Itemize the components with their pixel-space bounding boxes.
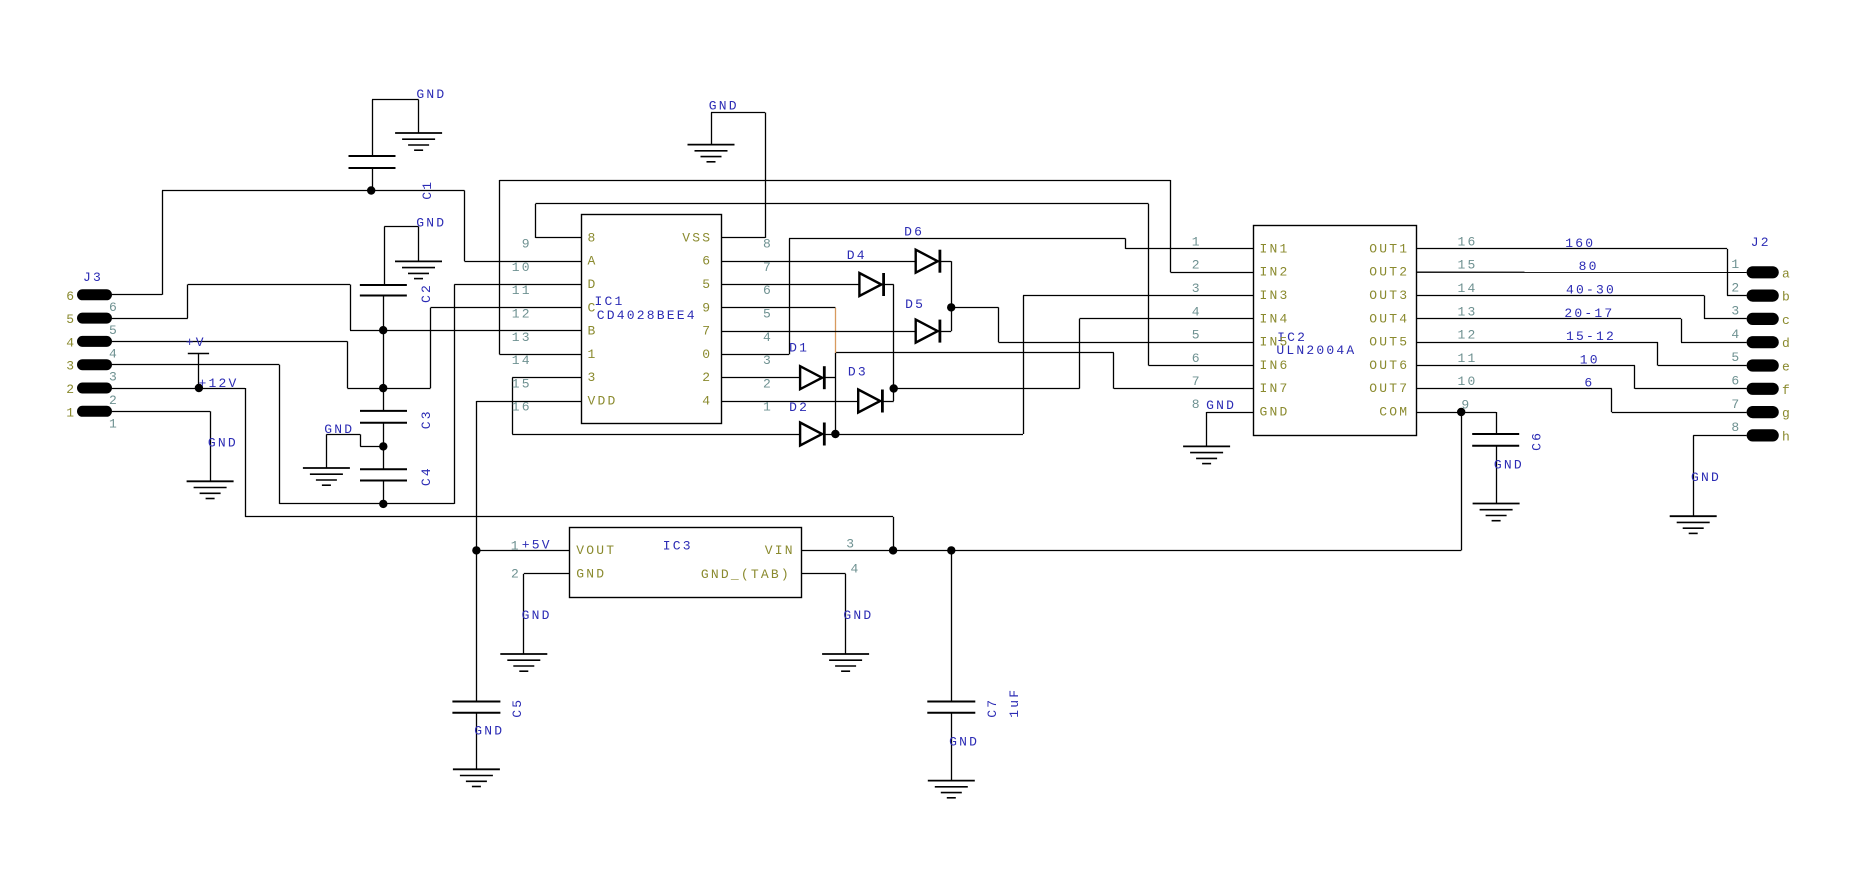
svg-text:4: 4 bbox=[109, 346, 119, 361]
svg-text:GND_(TAB): GND_(TAB) bbox=[701, 567, 791, 582]
svg-text:6: 6 bbox=[1192, 351, 1202, 366]
svg-text:VIN: VIN bbox=[765, 543, 795, 558]
svg-text:1: 1 bbox=[588, 347, 598, 362]
svg-text:16: 16 bbox=[512, 400, 532, 415]
svg-text:e: e bbox=[1782, 360, 1792, 375]
svg-text:OUT6: OUT6 bbox=[1369, 358, 1409, 373]
svg-text:2: 2 bbox=[702, 370, 712, 385]
svg-text:6: 6 bbox=[1731, 374, 1741, 389]
svg-text:1: 1 bbox=[1192, 234, 1202, 249]
svg-text:IN3: IN3 bbox=[1260, 288, 1290, 303]
svg-text:OUT7: OUT7 bbox=[1369, 381, 1409, 396]
svg-text:+V: +V bbox=[186, 335, 206, 350]
svg-text:4: 4 bbox=[851, 562, 861, 577]
svg-text:14: 14 bbox=[512, 353, 532, 368]
svg-text:12: 12 bbox=[512, 307, 532, 322]
svg-text:GND: GND bbox=[843, 608, 873, 623]
svg-text:D2: D2 bbox=[789, 400, 809, 415]
svg-text:C1: C1 bbox=[420, 180, 435, 200]
svg-text:2: 2 bbox=[66, 382, 76, 397]
svg-text:14: 14 bbox=[1458, 281, 1478, 296]
svg-text:COM: COM bbox=[1379, 405, 1409, 420]
svg-text:GND: GND bbox=[949, 735, 979, 750]
svg-text:GND: GND bbox=[709, 99, 739, 114]
svg-text:h: h bbox=[1782, 429, 1792, 444]
svg-text:8: 8 bbox=[1192, 397, 1202, 412]
svg-text:C2: C2 bbox=[419, 283, 434, 303]
svg-text:4: 4 bbox=[66, 335, 76, 350]
svg-text:6: 6 bbox=[702, 254, 712, 269]
svg-text:+12V: +12V bbox=[199, 376, 239, 391]
svg-text:12: 12 bbox=[1458, 328, 1478, 343]
svg-text:D: D bbox=[588, 277, 598, 292]
svg-text:VDD: VDD bbox=[588, 394, 618, 409]
svg-text:OUT1: OUT1 bbox=[1369, 241, 1409, 256]
svg-text:D5: D5 bbox=[905, 297, 925, 312]
svg-text:4: 4 bbox=[1192, 304, 1202, 319]
svg-text:5: 5 bbox=[702, 277, 712, 292]
svg-text:1: 1 bbox=[511, 538, 521, 553]
svg-text:f: f bbox=[1782, 383, 1792, 398]
svg-text:6: 6 bbox=[1584, 376, 1594, 391]
svg-text:D1: D1 bbox=[789, 341, 809, 356]
svg-text:4: 4 bbox=[763, 330, 773, 345]
svg-text:5: 5 bbox=[66, 312, 76, 327]
svg-text:9: 9 bbox=[702, 300, 712, 315]
svg-text:D4: D4 bbox=[847, 248, 867, 263]
svg-text:GND: GND bbox=[324, 422, 354, 437]
svg-text:5: 5 bbox=[763, 307, 773, 322]
svg-text:C: C bbox=[588, 300, 598, 315]
svg-text:10: 10 bbox=[1580, 352, 1600, 367]
svg-text:3: 3 bbox=[66, 359, 76, 374]
svg-text:GND: GND bbox=[522, 608, 552, 623]
svg-text:80: 80 bbox=[1579, 259, 1599, 274]
svg-text:GND: GND bbox=[576, 567, 606, 582]
svg-text:J2: J2 bbox=[1751, 235, 1771, 250]
svg-text:+5V: +5V bbox=[522, 538, 552, 553]
svg-text:16: 16 bbox=[1458, 234, 1478, 249]
svg-text:IN7: IN7 bbox=[1260, 381, 1290, 396]
svg-text:7: 7 bbox=[1192, 374, 1202, 389]
svg-text:3: 3 bbox=[1192, 281, 1202, 296]
svg-text:GND: GND bbox=[1494, 458, 1524, 473]
svg-text:2: 2 bbox=[1192, 258, 1202, 273]
svg-text:2: 2 bbox=[1731, 280, 1741, 295]
svg-text:VSS: VSS bbox=[682, 230, 712, 245]
svg-text:3: 3 bbox=[588, 370, 598, 385]
svg-text:GND: GND bbox=[416, 215, 446, 230]
svg-text:2: 2 bbox=[511, 567, 521, 582]
svg-text:OUT3: OUT3 bbox=[1369, 288, 1409, 303]
svg-text:CD4028BEE4: CD4028BEE4 bbox=[597, 308, 697, 323]
svg-text:160: 160 bbox=[1565, 236, 1595, 251]
svg-text:J3: J3 bbox=[83, 270, 103, 285]
svg-text:5: 5 bbox=[109, 323, 119, 338]
svg-text:IN6: IN6 bbox=[1260, 358, 1290, 373]
svg-text:C5: C5 bbox=[510, 698, 525, 718]
svg-text:2: 2 bbox=[763, 376, 773, 391]
svg-text:a: a bbox=[1782, 266, 1792, 281]
svg-text:13: 13 bbox=[1458, 304, 1478, 319]
svg-text:2: 2 bbox=[109, 393, 119, 408]
svg-text:8: 8 bbox=[1731, 420, 1741, 435]
svg-text:GND: GND bbox=[1206, 398, 1236, 413]
svg-text:7: 7 bbox=[702, 324, 712, 339]
svg-text:GND: GND bbox=[474, 723, 504, 738]
svg-text:3: 3 bbox=[109, 370, 119, 385]
svg-text:15: 15 bbox=[512, 376, 532, 391]
svg-text:B: B bbox=[588, 324, 598, 339]
svg-text:OUT5: OUT5 bbox=[1369, 335, 1409, 350]
svg-text:10: 10 bbox=[1458, 374, 1478, 389]
svg-text:6: 6 bbox=[109, 300, 119, 315]
svg-text:c: c bbox=[1782, 313, 1792, 328]
svg-text:g: g bbox=[1782, 406, 1792, 421]
svg-text:15: 15 bbox=[1458, 258, 1478, 273]
svg-text:OUT4: OUT4 bbox=[1369, 311, 1409, 326]
svg-text:3: 3 bbox=[763, 353, 773, 368]
svg-text:GND: GND bbox=[416, 87, 446, 102]
svg-text:11: 11 bbox=[1458, 351, 1478, 366]
svg-text:VOUT: VOUT bbox=[576, 543, 616, 558]
svg-text:b: b bbox=[1782, 290, 1792, 305]
svg-text:5: 5 bbox=[1192, 328, 1202, 343]
svg-text:4: 4 bbox=[1731, 327, 1741, 342]
svg-text:1: 1 bbox=[66, 405, 76, 420]
svg-text:IN2: IN2 bbox=[1260, 265, 1290, 280]
svg-text:1: 1 bbox=[1731, 257, 1741, 272]
svg-text:3: 3 bbox=[846, 537, 856, 552]
svg-text:1uF: 1uF bbox=[1007, 688, 1022, 718]
svg-text:5: 5 bbox=[1731, 350, 1741, 365]
svg-text:IN1: IN1 bbox=[1260, 241, 1290, 256]
svg-text:10: 10 bbox=[512, 260, 532, 275]
svg-text:D6: D6 bbox=[904, 225, 924, 240]
svg-text:GND: GND bbox=[208, 435, 238, 450]
svg-text:9: 9 bbox=[522, 237, 532, 252]
svg-text:9: 9 bbox=[1461, 398, 1471, 413]
svg-text:C6: C6 bbox=[1530, 431, 1545, 451]
svg-text:40-30: 40-30 bbox=[1566, 282, 1616, 297]
svg-text:d: d bbox=[1782, 336, 1792, 351]
svg-text:20-17: 20-17 bbox=[1564, 306, 1614, 321]
svg-text:7: 7 bbox=[763, 260, 773, 275]
svg-text:IN4: IN4 bbox=[1260, 311, 1290, 326]
svg-text:C4: C4 bbox=[419, 466, 434, 486]
svg-text:4: 4 bbox=[702, 394, 712, 409]
svg-text:IC1: IC1 bbox=[595, 294, 625, 309]
svg-text:OUT2: OUT2 bbox=[1369, 265, 1409, 280]
svg-text:C3: C3 bbox=[419, 409, 434, 429]
svg-text:3: 3 bbox=[1731, 304, 1741, 319]
svg-text:C7: C7 bbox=[985, 698, 1000, 718]
svg-text:IC3: IC3 bbox=[663, 539, 693, 554]
svg-text:8: 8 bbox=[763, 237, 773, 252]
svg-text:6: 6 bbox=[66, 289, 76, 304]
svg-text:6: 6 bbox=[763, 283, 773, 298]
svg-text:GND: GND bbox=[1260, 405, 1290, 420]
svg-text:IN5: IN5 bbox=[1260, 335, 1290, 350]
svg-text:1: 1 bbox=[763, 400, 773, 415]
svg-text:15-12: 15-12 bbox=[1566, 329, 1616, 344]
svg-text:11: 11 bbox=[512, 283, 532, 298]
svg-text:1: 1 bbox=[109, 416, 119, 431]
svg-text:A: A bbox=[588, 254, 598, 269]
svg-text:7: 7 bbox=[1731, 397, 1741, 412]
svg-text:0: 0 bbox=[702, 347, 712, 362]
svg-text:8: 8 bbox=[588, 230, 598, 245]
svg-text:D3: D3 bbox=[848, 365, 868, 380]
svg-text:GND: GND bbox=[1691, 470, 1721, 485]
svg-text:13: 13 bbox=[512, 330, 532, 345]
